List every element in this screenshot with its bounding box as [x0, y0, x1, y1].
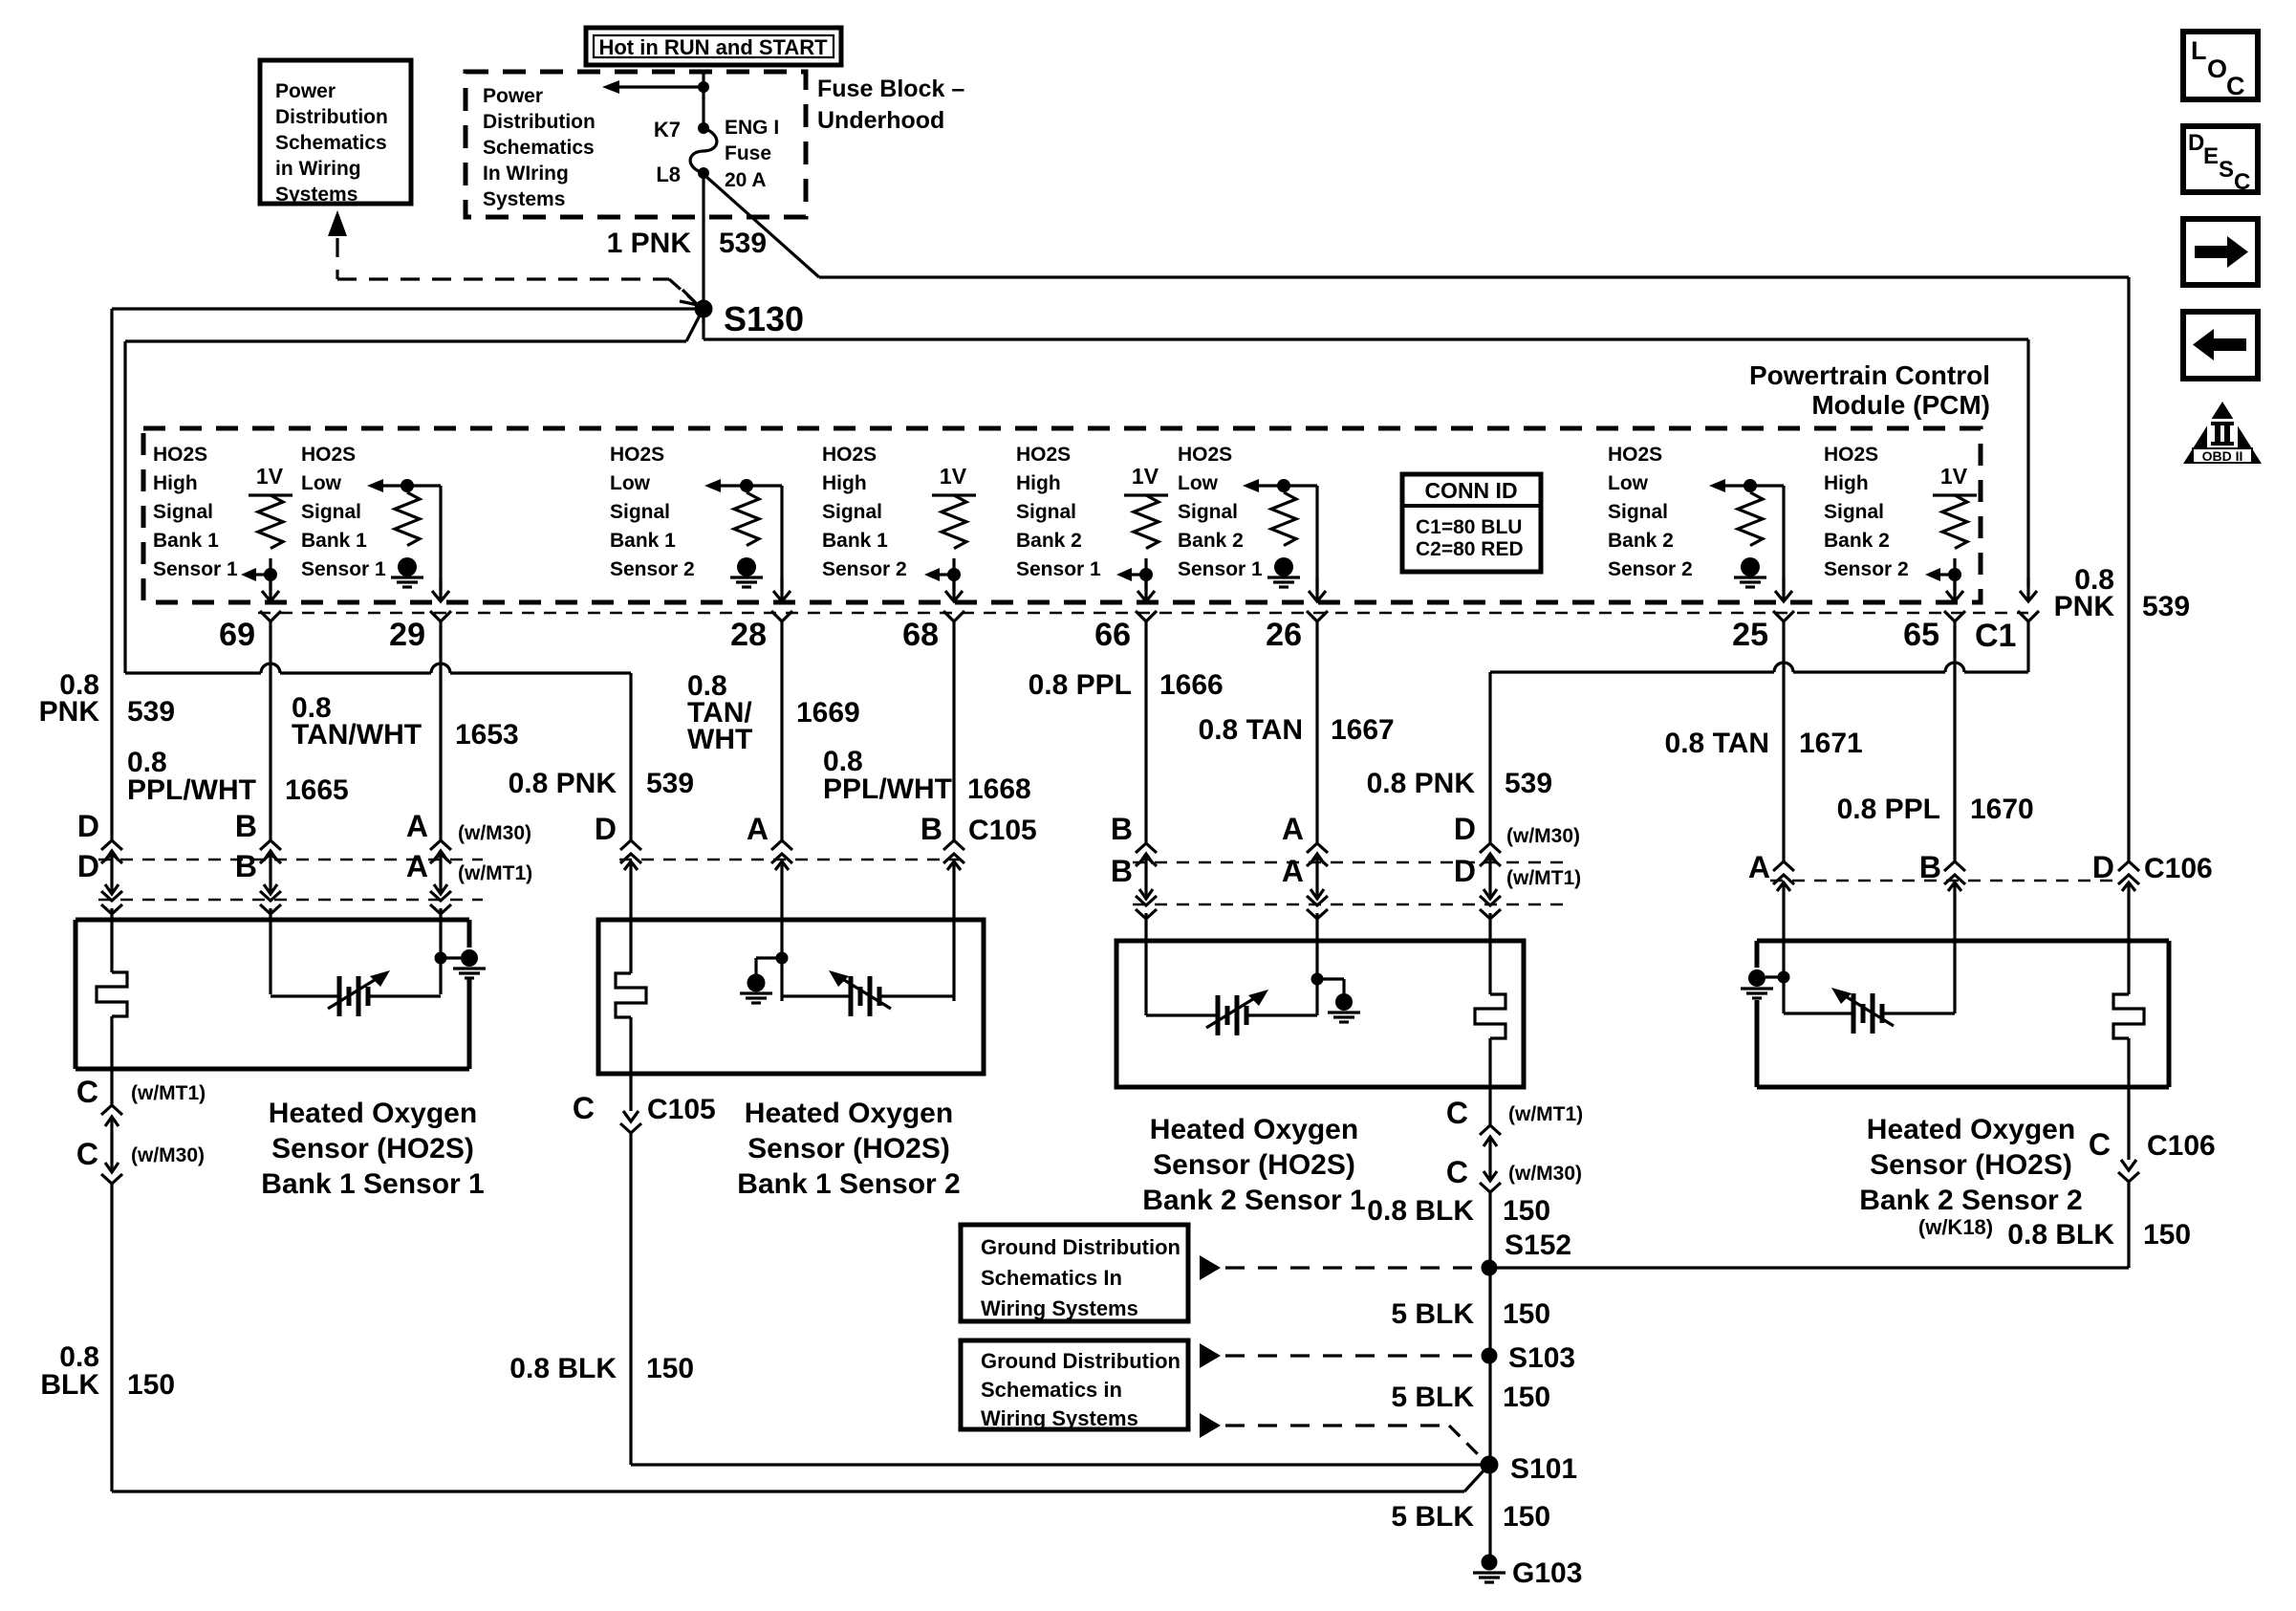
svg-text:Hot in RUN and START: Hot in RUN and START [598, 35, 828, 59]
svg-text:1668: 1668 [967, 773, 1031, 805]
svg-text:Bank 2: Bank 2 [1608, 530, 1674, 552]
svg-text:S101: S101 [1510, 1453, 1577, 1485]
svg-text:Sensor 1: Sensor 1 [1178, 558, 1263, 580]
sensor4 signal ground [1741, 969, 1790, 998]
svg-text:B: B [1919, 850, 1941, 884]
label 0.8 BLK 150 left [40, 1341, 175, 1401]
wire PNK 539 right inner [704, 316, 2028, 339]
svg-text:Bank 1 Sensor 1: Bank 1 Sensor 1 [261, 1168, 484, 1200]
CONN ID box [1402, 474, 1541, 572]
label 0.8 TAN 1667 [1199, 714, 1395, 746]
svg-text:29: 29 [389, 617, 425, 653]
svg-text:B: B [921, 812, 942, 846]
sidebar left arrow icon [2183, 312, 2258, 379]
svg-text:Systems: Systems [275, 184, 357, 206]
svg-text:(w/M30): (w/M30) [458, 822, 531, 844]
label 0.8 BLK 150 right [2007, 1219, 2191, 1251]
svg-text:Sensor 2: Sensor 2 [610, 558, 695, 580]
wire PPL/WHT 1668 (pin 68 to sensor2 B) [943, 621, 964, 1001]
svg-text:A: A [406, 809, 428, 843]
sensor2 C105 connector label [573, 1091, 716, 1125]
svg-text:Bank 2 Sensor 2: Bank 2 Sensor 2 [1859, 1185, 2082, 1216]
svg-text:C: C [1446, 1096, 1468, 1130]
svg-text:Sensor 1: Sensor 1 [153, 558, 238, 580]
sensor1 signal ground [435, 949, 487, 978]
svg-text:539: 539 [2142, 591, 2190, 622]
sensor box 2 (HO2S Bank 1 Sensor 2) [598, 920, 984, 1074]
svg-text:A: A [406, 849, 428, 883]
dashed reference arrow to S130 [328, 210, 698, 305]
PCM channel HO2S High Signal Bank 1 Sensor 2 (pin 68) [822, 444, 976, 653]
svg-text:Schematics In: Schematics In [981, 1266, 1122, 1290]
svg-text:Bank 1: Bank 1 [153, 530, 219, 552]
svg-text:68: 68 [902, 617, 939, 653]
svg-text:0.8 TAN: 0.8 TAN [1665, 728, 1769, 759]
label 0.8 BLK 150 center [509, 1353, 694, 1384]
splice S130 [695, 299, 805, 338]
svg-text:150: 150 [1503, 1195, 1550, 1227]
svg-text:C2=80 RED: C2=80 RED [1416, 538, 1524, 560]
svg-text:Distribution: Distribution [275, 106, 388, 128]
svg-text:0.8 PPL: 0.8 PPL [1837, 794, 1940, 825]
svg-text:Bank 2 Sensor 1: Bank 2 Sensor 1 [1142, 1185, 1365, 1216]
svg-text:5 BLK: 5 BLK [1391, 1298, 1474, 1330]
svg-text:C: C [1446, 1155, 1468, 1189]
svg-text:C1=80 BLU: C1=80 BLU [1416, 516, 1522, 538]
splice S101 [1481, 1453, 1578, 1485]
svg-text:Sensor 2: Sensor 2 [1824, 558, 1909, 580]
svg-text:Sensor 1: Sensor 1 [301, 558, 386, 580]
PCM channel HO2S Low Signal Bank 2 Sensor 2 (pin 25) [1608, 444, 1794, 653]
wire TAN 1671 (pin 25 to sensor4 A) [1773, 621, 1794, 1013]
sensor box 4 (HO2S Bank 2 Sensor 2) [1757, 941, 2169, 1087]
dashed arrow to S152 [1200, 1255, 1481, 1280]
label 0.8 PNK 539 right [2054, 564, 2190, 622]
svg-text:HO2S: HO2S [610, 444, 664, 466]
svg-text:(w/M30): (w/M30) [131, 1144, 205, 1166]
wire 1 PNK 539 [607, 173, 767, 309]
svg-text:Bank 1 Sensor 2: Bank 1 Sensor 2 [737, 1168, 960, 1200]
svg-text:0.8 BLK: 0.8 BLK [1367, 1195, 1474, 1227]
svg-text:(w/MT1): (w/MT1) [458, 862, 532, 884]
svg-text:C: C [2089, 1127, 2111, 1162]
svg-text:(w/MT1): (w/MT1) [1508, 1103, 1583, 1125]
wire PNK 539 left upper [112, 307, 704, 310]
PCM channel HO2S Low Signal Bank 1 Sensor 1 (pin 29) [301, 444, 451, 653]
PCM dashed box [143, 428, 1981, 602]
svg-text:1670: 1670 [1970, 794, 2034, 825]
svg-text:D: D [1454, 854, 1476, 888]
PCM channel HO2S High Signal Bank 2 Sensor 1 (pin 66) [1016, 444, 1168, 653]
svg-text:HO2S: HO2S [153, 444, 207, 466]
sensor4 C106 connector label [2089, 1127, 2216, 1162]
svg-text:539: 539 [646, 768, 694, 799]
svg-text:1V: 1V [1940, 464, 1968, 489]
label 0.8 TAN/WHT 1669 [687, 670, 860, 755]
label 0.8 BLK 150 trunk [1367, 1195, 1550, 1227]
svg-text:HO2S: HO2S [1016, 444, 1071, 466]
wire PPL/WHT 1665 (pin 69 to sensor1 B) [260, 621, 281, 994]
svg-text:Underhood: Underhood [817, 107, 944, 134]
svg-text:Bank 1: Bank 1 [301, 530, 367, 552]
svg-text:539: 539 [719, 228, 767, 259]
svg-text:0.8 TAN: 0.8 TAN [1199, 714, 1303, 746]
svg-text:C: C [76, 1075, 98, 1109]
svg-text:Low: Low [610, 472, 651, 494]
svg-text:A: A [1748, 850, 1770, 884]
sidebar DESC icon [2183, 126, 2258, 195]
svg-text:C106: C106 [2147, 1130, 2216, 1162]
sensor2 label [737, 1098, 960, 1200]
label 0.8 PPL/WHT 1668 [823, 746, 1031, 805]
label 5 BLK 150 (S152-S103) [1391, 1298, 1550, 1330]
svg-text:CONN ID: CONN ID [1424, 478, 1517, 503]
svg-text:S: S [2219, 157, 2234, 183]
svg-text:Heated Oxygen: Heated Oxygen [1867, 1114, 2075, 1145]
svg-text:Low: Low [301, 472, 342, 494]
svg-text:B: B [235, 849, 257, 883]
svg-text:1669: 1669 [796, 697, 860, 729]
svg-text:D: D [1454, 812, 1476, 846]
svg-text:HO2S: HO2S [301, 444, 356, 466]
label 5 BLK 150 (S101-G103) [1391, 1501, 1550, 1533]
label 0.8 PPL 1670 [1837, 794, 2034, 825]
svg-text:66: 66 [1094, 617, 1131, 653]
label 0.8 PNK 539 sensor3 [1367, 768, 1552, 799]
wire TAN/WHT 1653 (pin 29 to sensor1 A) [430, 621, 451, 994]
svg-text:ENG I: ENG I [725, 117, 779, 139]
svg-text:E: E [2203, 143, 2219, 169]
svg-text:150: 150 [1503, 1382, 1550, 1413]
svg-text:High: High [1824, 472, 1869, 494]
svg-text:Powertrain Control: Powertrain Control [1749, 360, 1990, 390]
svg-text:G103: G103 [1512, 1557, 1582, 1589]
svg-text:B: B [235, 809, 257, 843]
svg-text:539: 539 [127, 696, 175, 728]
wire PNK 539 / BLK 150 sensor3 column (D and trunk) [1475, 672, 1505, 1562]
svg-text:Signal: Signal [153, 501, 213, 523]
svg-text:C: C [2234, 169, 2250, 195]
svg-text:1667: 1667 [1331, 714, 1395, 746]
svg-text:Low: Low [1608, 472, 1649, 494]
svg-text:Schematics in: Schematics in [981, 1378, 1122, 1402]
svg-text:Sensor (HO2S): Sensor (HO2S) [1153, 1149, 1355, 1181]
svg-text:C105: C105 [968, 815, 1037, 846]
svg-text:C1: C1 [1975, 618, 2016, 654]
C1 row end connector at corner wire [2018, 577, 2039, 621]
svg-text:(w/M30): (w/M30) [1506, 825, 1580, 847]
svg-text:0.8 PNK: 0.8 PNK [509, 768, 617, 799]
svg-text:In WIring: In WIring [483, 163, 569, 185]
svg-text:20 A: 20 A [725, 169, 767, 191]
svg-text:D: D [2092, 850, 2114, 884]
connector row 2 labels (sensor1) [77, 849, 532, 884]
svg-text:S130: S130 [724, 299, 804, 338]
svg-text:0.8 PNK: 0.8 PNK [1367, 768, 1476, 799]
wire PNK 539 / BLK 150 sensor4 column (D and C106 C) [1489, 277, 2144, 1268]
svg-text:150: 150 [2143, 1219, 2191, 1251]
svg-text:28: 28 [730, 617, 767, 653]
svg-text:0.8 BLK: 0.8 BLK [509, 1353, 617, 1384]
sensor1 element [271, 970, 441, 1016]
splice S152 [1482, 1230, 1572, 1276]
svg-text:Signal: Signal [610, 501, 670, 523]
fuse block label [817, 76, 964, 134]
svg-text:Heated Oxygen: Heated Oxygen [1150, 1114, 1358, 1145]
svg-text:PNK: PNK [39, 696, 100, 728]
svg-text:Heated Oxygen: Heated Oxygen [269, 1098, 477, 1129]
svg-text:PNK: PNK [2054, 591, 2115, 622]
svg-text:5 BLK: 5 BLK [1391, 1382, 1474, 1413]
svg-text:(w/MT1): (w/MT1) [131, 1082, 206, 1104]
wire TAN/WHT 1669 (pin 28 to sensor2 A) [771, 621, 792, 1001]
svg-text:Low: Low [1178, 472, 1219, 494]
svg-text:PPL/WHT: PPL/WHT [127, 774, 256, 806]
svg-text:OBD II: OBD II [2202, 448, 2243, 464]
dashed arrow to S101 [1200, 1413, 1484, 1461]
svg-text:WHT: WHT [687, 724, 752, 755]
sensor3 C connector labels [1446, 1096, 1583, 1189]
Powertrain Control Module label [1749, 360, 1990, 420]
svg-text:Sensor (HO2S): Sensor (HO2S) [271, 1133, 474, 1165]
svg-text:1653: 1653 [455, 719, 519, 751]
splice S103 [1482, 1342, 1576, 1374]
wire PNK 539 horizontal to sensor2 D [125, 341, 631, 673]
label 0.8 PNK 539 center [509, 768, 694, 799]
sidebar LOC icon [2183, 32, 2258, 100]
connector C105 row dashed line [619, 859, 968, 860]
power distribution reference box [260, 60, 411, 206]
svg-text:1 PNK: 1 PNK [607, 228, 692, 259]
svg-text:1V: 1V [940, 464, 967, 489]
svg-text:D: D [77, 809, 99, 843]
svg-text:C105: C105 [647, 1094, 716, 1125]
svg-text:D: D [2188, 130, 2204, 156]
svg-text:150: 150 [1503, 1298, 1550, 1330]
sensor4 label [1859, 1114, 2082, 1239]
svg-text:A: A [1282, 854, 1304, 888]
connector C106 row labels [1748, 850, 2213, 884]
svg-text:Signal: Signal [1824, 501, 1884, 523]
svg-text:Fuse: Fuse [725, 142, 771, 164]
svg-text:L: L [2191, 36, 2207, 65]
svg-text:150: 150 [1503, 1501, 1550, 1533]
svg-text:C106: C106 [2144, 853, 2213, 884]
svg-text:High: High [153, 472, 198, 494]
svg-text:in Wiring: in Wiring [275, 158, 361, 180]
svg-text:Sensor (HO2S): Sensor (HO2S) [747, 1133, 950, 1165]
svg-text:Signal: Signal [301, 501, 361, 523]
svg-text:K7: K7 [654, 118, 681, 142]
svg-text:Power: Power [483, 85, 543, 107]
svg-text:TAN/WHT: TAN/WHT [292, 719, 422, 751]
PCM channel HO2S Low Signal Bank 2 Sensor 1 (pin 26) [1178, 444, 1328, 653]
svg-text:Bank 2: Bank 2 [1178, 530, 1244, 552]
label 0.8 TAN 1671 [1665, 728, 1863, 759]
wire PNK 539 left lower [125, 314, 701, 341]
svg-text:Bank 2: Bank 2 [1016, 530, 1082, 552]
svg-text:Module (PCM): Module (PCM) [1811, 390, 1990, 420]
svg-text:150: 150 [646, 1353, 694, 1384]
svg-text:C: C [2226, 72, 2245, 100]
ground G103 [1473, 1555, 1582, 1590]
svg-text:Bank 1: Bank 1 [822, 530, 888, 552]
sensor3 signal ground [1311, 973, 1361, 1023]
svg-text:O: O [2207, 54, 2227, 83]
connector C105 row labels [595, 812, 1037, 846]
Hot in RUN and START box [586, 28, 841, 65]
label 0.8 PPL 1666 [1029, 669, 1224, 701]
svg-text:0.8 BLK: 0.8 BLK [2007, 1219, 2114, 1251]
svg-text:539: 539 [1505, 768, 1552, 799]
sensor box 3 (HO2S Bank 2 Sensor 1) [1116, 941, 1524, 1087]
svg-text:26: 26 [1266, 617, 1302, 653]
sensor1 label [261, 1098, 484, 1200]
svg-text:B: B [1111, 812, 1133, 846]
svg-text:Bank 2: Bank 2 [1824, 530, 1890, 552]
svg-text:1V: 1V [1132, 464, 1159, 489]
connector row w/M30 dashed line (sensor1) [98, 859, 483, 860]
svg-text:Ground Distribution: Ground Distribution [981, 1235, 1180, 1259]
connector rows labels (sensor3) [1111, 812, 1581, 889]
svg-text:69: 69 [219, 617, 255, 653]
svg-text:0.8 PPL: 0.8 PPL [1029, 669, 1132, 701]
svg-text:Systems: Systems [483, 188, 565, 210]
svg-text:Heated Oxygen: Heated Oxygen [745, 1098, 953, 1129]
svg-text:Signal: Signal [822, 501, 882, 523]
svg-text:A: A [747, 812, 769, 846]
PCM channel HO2S High Signal Bank 2 Sensor 2 (pin 65) [1824, 444, 1977, 653]
svg-text:Sensor 2: Sensor 2 [1608, 558, 1693, 580]
svg-text:Signal: Signal [1608, 501, 1668, 523]
sensor3 label [1142, 1114, 1365, 1216]
svg-text:HO2S: HO2S [1178, 444, 1232, 466]
sensor box 1 (HO2S Bank 1 Sensor 1) [76, 920, 469, 1069]
svg-text:HO2S: HO2S [1608, 444, 1662, 466]
pin connector row C1 dashed line [258, 612, 2028, 614]
svg-text:25: 25 [1732, 617, 1768, 653]
svg-text:1665: 1665 [285, 774, 349, 806]
svg-text:Signal: Signal [1178, 501, 1238, 523]
svg-text:HO2S: HO2S [822, 444, 877, 466]
sensor4 element [1784, 988, 1955, 1034]
wire TAN 1667 (pin 26 to sensor3 A) [1307, 621, 1328, 1015]
connector row w/MT1 dashed line (sensor1) [98, 899, 483, 901]
svg-text:D: D [595, 812, 617, 846]
pin C1 label [1975, 618, 2016, 654]
svg-text:S103: S103 [1508, 1342, 1575, 1374]
svg-text:(w/MT1): (w/MT1) [1506, 867, 1581, 889]
svg-text:Fuse Block –: Fuse Block – [817, 76, 964, 102]
wire PNK 539 / BLK 150 left column (sensor1 D and C) [97, 309, 1487, 1491]
svg-text:65: 65 [1903, 617, 1939, 653]
svg-text:High: High [1016, 472, 1061, 494]
connector row 1 labels (sensor1) [77, 809, 531, 844]
svg-text:BLK: BLK [40, 1369, 99, 1401]
svg-text:1671: 1671 [1799, 728, 1863, 759]
svg-text:Power: Power [275, 80, 336, 102]
svg-text:HO2S: HO2S [1824, 444, 1878, 466]
PCM channel HO2S High Signal Bank 1 Sensor 1 (pin 69) [153, 444, 292, 653]
label 0.8 PPL/WHT 1665 [127, 747, 349, 806]
sensor3 element [1146, 990, 1317, 1035]
svg-text:Wiring Systems: Wiring Systems [981, 1296, 1138, 1320]
dashed arrow to S103 [1200, 1343, 1480, 1368]
svg-text:Sensor 1: Sensor 1 [1016, 558, 1101, 580]
label 0.8 PNK 539 left [39, 669, 175, 728]
ground distribution box 2 [961, 1340, 1188, 1430]
OBD II triangle icon [2183, 402, 2262, 464]
wire PNK 539 right inner column to sensor3 D [1490, 339, 2028, 672]
wire PNK 539 from fuse to right edge [705, 176, 2129, 277]
svg-text:Sensor 2: Sensor 2 [822, 558, 907, 580]
power distribution text in fuse box [483, 85, 596, 210]
sensor1 C connector labels [76, 1075, 206, 1171]
svg-text:1666: 1666 [1159, 669, 1224, 701]
wire PPL 1670 (pin 65 to sensor4 B) [1944, 621, 1965, 1013]
svg-text:(w/K18): (w/K18) [1918, 1215, 1993, 1239]
label 0.8 TAN/WHT 1653 [292, 692, 519, 751]
svg-text:A: A [1282, 812, 1304, 846]
svg-text:High: High [822, 472, 867, 494]
svg-text:PPL/WHT: PPL/WHT [823, 773, 952, 805]
svg-text:Schematics: Schematics [483, 137, 595, 159]
label 5 BLK 150 (S103-S101) [1391, 1382, 1550, 1413]
connector rows dashed lines (sensor3) [1133, 862, 1566, 904]
svg-text:C: C [76, 1137, 98, 1171]
svg-text:Sensor (HO2S): Sensor (HO2S) [1870, 1149, 2072, 1181]
svg-text:B: B [1111, 854, 1133, 888]
sensor2 signal ground [740, 952, 789, 1004]
sensor2 element [782, 970, 954, 1016]
connector C106 row dashed line [1770, 880, 2120, 882]
fuse ENG I 20A [654, 117, 779, 191]
svg-text:Wiring Systems: Wiring Systems [981, 1406, 1138, 1430]
svg-text:5 BLK: 5 BLK [1391, 1501, 1474, 1533]
svg-text:D: D [77, 849, 99, 883]
PCM channel HO2S Low Signal Bank 1 Sensor 2 (pin 28) [610, 444, 792, 653]
svg-text:Ground Distribution: Ground Distribution [981, 1349, 1180, 1373]
svg-text:150: 150 [127, 1369, 175, 1401]
svg-text:Bank 1: Bank 1 [610, 530, 676, 552]
svg-text:Schematics: Schematics [275, 132, 387, 154]
wire PPL 1666 (pin 66 to sensor3 B) [1136, 621, 1157, 1015]
svg-text:Distribution: Distribution [483, 111, 596, 133]
svg-text:C: C [573, 1091, 595, 1125]
svg-text:Signal: Signal [1016, 501, 1076, 523]
svg-text:1V: 1V [256, 464, 284, 489]
fuse block dashed box [466, 72, 806, 217]
sidebar right arrow icon [2183, 219, 2258, 285]
svg-text:S152: S152 [1505, 1230, 1571, 1261]
battery feed wire and arrow [602, 72, 709, 128]
svg-text:L8: L8 [656, 163, 681, 186]
ground distribution box 1 [961, 1225, 1188, 1321]
svg-text:(w/M30): (w/M30) [1508, 1163, 1582, 1185]
wire PNK 539 / BLK 150 sensor2 column (D and C105 C) [616, 673, 1487, 1465]
